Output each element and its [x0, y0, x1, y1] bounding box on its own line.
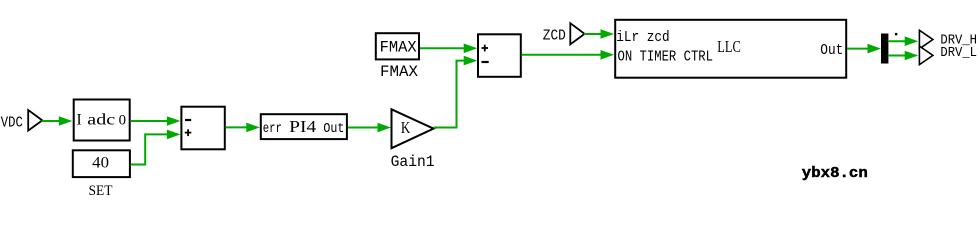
block 40 (SET constant) — [73, 150, 130, 177]
summer SUM2 — [478, 34, 521, 77]
wire VDC to adc — [42, 116, 73, 126]
svg-text:adc: adc — [87, 112, 115, 129]
input port VDC — [28, 110, 42, 131]
block PI4 (err / Out) — [261, 114, 347, 139]
svg-text:SET: SET — [89, 183, 113, 199]
block adc (I adc 0) — [74, 100, 130, 141]
wire adc to sum1 minus — [131, 116, 180, 126]
block LLC — [615, 20, 846, 78]
block FMAX constant — [376, 33, 419, 59]
svg-text:0: 0 — [119, 112, 126, 128]
wire bar to DRV_H port — [888, 36, 918, 46]
gain K (Gain1) — [392, 109, 434, 148]
svg-text:ON TIMER CTRL: ON TIMER CTRL — [618, 49, 714, 66]
svg-text:Out: Out — [820, 42, 843, 59]
svg-text:ZCD: ZCD — [543, 29, 566, 45]
output port DRV_H — [919, 30, 933, 49]
svg-text:LLC: LLC — [717, 37, 741, 56]
svg-text:iLr zcd: iLr zcd — [616, 29, 670, 46]
wire bar to DRV_L port — [888, 51, 918, 61]
svg-text:Out: Out — [323, 122, 344, 137]
svg-text:ybx8.cn: ybx8.cn — [802, 165, 868, 182]
svg-text:Gain1: Gain1 — [391, 153, 435, 171]
output port DRV_L — [919, 46, 933, 65]
svg-text:K: K — [401, 118, 411, 137]
svg-text:PI4: PI4 — [289, 117, 316, 136]
junction dot — [895, 33, 897, 36]
svg-text:40: 40 — [92, 154, 109, 171]
wire 40 to sum1 plus — [131, 130, 181, 165]
svg-text:VDC: VDC — [1, 116, 23, 132]
wire ZCD to LLC iLr zcd — [584, 29, 614, 39]
wire LLC Out to bus bar — [847, 44, 881, 54]
wire FMAX to sum2 plus — [420, 44, 477, 54]
wire sum2 to LLC ON TIMER CTRL — [522, 50, 615, 60]
svg-text:FMAX: FMAX — [380, 38, 417, 56]
svg-text:err: err — [263, 122, 282, 137]
input port ZCD — [570, 23, 584, 44]
bus bar — [881, 34, 888, 64]
svg-text:FMAX: FMAX — [380, 63, 418, 81]
wire PI4 to gain — [348, 123, 391, 133]
wire gain to sum2 minus — [434, 56, 478, 128]
summer SUM1 — [181, 107, 224, 150]
wire sum1 to PI4 — [226, 123, 260, 133]
svg-text:DRV_L: DRV_L — [940, 45, 977, 61]
svg-text:I: I — [77, 112, 82, 129]
